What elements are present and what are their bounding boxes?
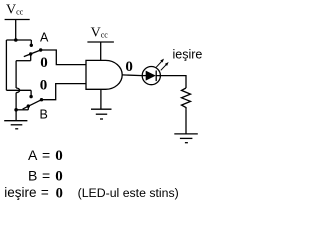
svg-text:Vcc: Vcc [6,3,24,18]
led D1 arrow 2 [161,62,169,70]
led D1 cathode bar [155,71,157,82]
wire horizontal to B top [6,89,31,91]
wire switch B top stub [30,90,32,95]
resistor R1 zigzag [182,88,191,110]
ground G3 under resistor [174,134,198,143]
wire A ground vertical lower [15,93,17,121]
svg-text:0: 0 [40,77,48,93]
wire Vcc node horizontal [6,39,31,41]
svg-text:Vcc: Vcc [91,26,109,41]
label equation iesire [4,185,63,202]
wire B pole to jog [42,84,87,100]
node switch B pole [40,98,43,101]
svg-text:0: 0 [125,59,132,75]
label equation A [28,147,63,164]
node Vcc junction [14,38,18,42]
wire A ground vertical upper [15,61,17,88]
wire A ground horizontal [16,60,31,62]
svg-text:0: 0 [56,185,63,201]
wire switch A top stub [30,40,32,44]
wire A pole to jog [41,50,86,65]
wire gate output [122,74,142,77]
svg-text:(LED-ul este stins): (LED-ul este stins) [78,186,179,200]
svg-text:=: = [42,147,50,163]
led D1 arrow 1 [156,59,164,68]
svg-text:B: B [40,108,48,122]
svg-text:ieşire: ieşire [4,185,36,200]
wire Vcc2 stem [100,42,102,60]
ground G2 under gate [91,109,112,119]
node switch A pole [39,48,42,51]
label equation B [28,167,63,184]
svg-text:B: B [28,167,37,183]
switch A lever [24,50,41,57]
wire led internal anode [142,75,146,77]
led D1 circle [142,67,160,85]
wire hop over Vcc-B wire [16,88,20,93]
ground G1 under switches [4,121,27,129]
wire resistor to ground [185,110,187,134]
wire left vertical to B [5,40,7,90]
svg-text:=: = [41,185,49,200]
and-gate U1 body [86,60,122,89]
node switch B top contact [29,95,32,98]
wire switch A ground stub [30,55,32,61]
node switch B ground contact [27,104,30,107]
svg-text:ieşire: ieşire [173,48,203,62]
wire gate ground stem [100,89,102,109]
wire switch B ground stub [27,107,29,110]
svg-text:=: = [42,167,50,183]
wire Vcc1 stem [15,20,17,41]
node ground junction [14,108,18,112]
power Vcc gate bar [87,41,114,43]
svg-text:0: 0 [55,148,63,164]
led D1 triangle [146,71,156,81]
power Vcc left bar [5,19,30,21]
svg-text:A: A [40,31,49,45]
svg-text:0: 0 [40,55,48,71]
svg-text:0: 0 [55,168,63,184]
node switch A ground contact [29,52,32,55]
wire led to resistor [156,76,186,88]
svg-text:A: A [28,147,38,163]
switch B lever [23,100,42,109]
node switch A top contact [30,44,33,47]
wire B ground horizontal [16,109,28,111]
